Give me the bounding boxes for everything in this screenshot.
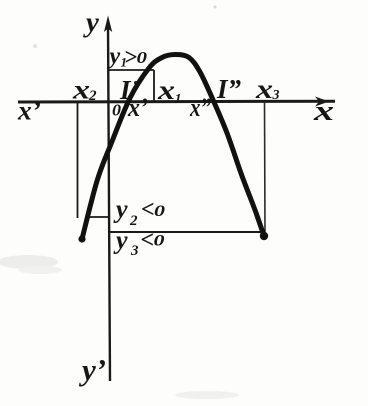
- svg-text:3: 3: [272, 88, 280, 103]
- svg-text:x: x: [157, 75, 175, 105]
- svg-text:y: y: [113, 195, 128, 224]
- svg-text:2: 2: [129, 213, 138, 229]
- svg-text:<: <: [141, 197, 155, 223]
- svg-text:x’: x’: [127, 93, 148, 122]
- svg-text:I”: I”: [216, 74, 242, 104]
- svg-text:0: 0: [154, 203, 165, 220]
- svg-text:y: y: [83, 7, 99, 39]
- svg-text:x’: x’: [17, 96, 41, 126]
- svg-text:3: 3: [130, 243, 139, 259]
- svg-text:0: 0: [112, 101, 122, 120]
- svg-text:>: >: [124, 45, 137, 70]
- svg-text:x: x: [72, 75, 90, 105]
- svg-text:y: y: [107, 44, 121, 70]
- svg-text:x: x: [255, 74, 273, 104]
- svg-text:y’: y’: [78, 352, 106, 387]
- svg-text:2: 2: [88, 88, 97, 104]
- svg-text:y: y: [113, 226, 128, 255]
- svg-text:x”: x”: [189, 93, 211, 122]
- svg-text:0: 0: [137, 48, 148, 67]
- svg-text:<: <: [141, 228, 155, 254]
- svg-text:0: 0: [154, 233, 165, 250]
- svg-text:x: x: [313, 96, 334, 127]
- svg-text:1: 1: [175, 92, 182, 107]
